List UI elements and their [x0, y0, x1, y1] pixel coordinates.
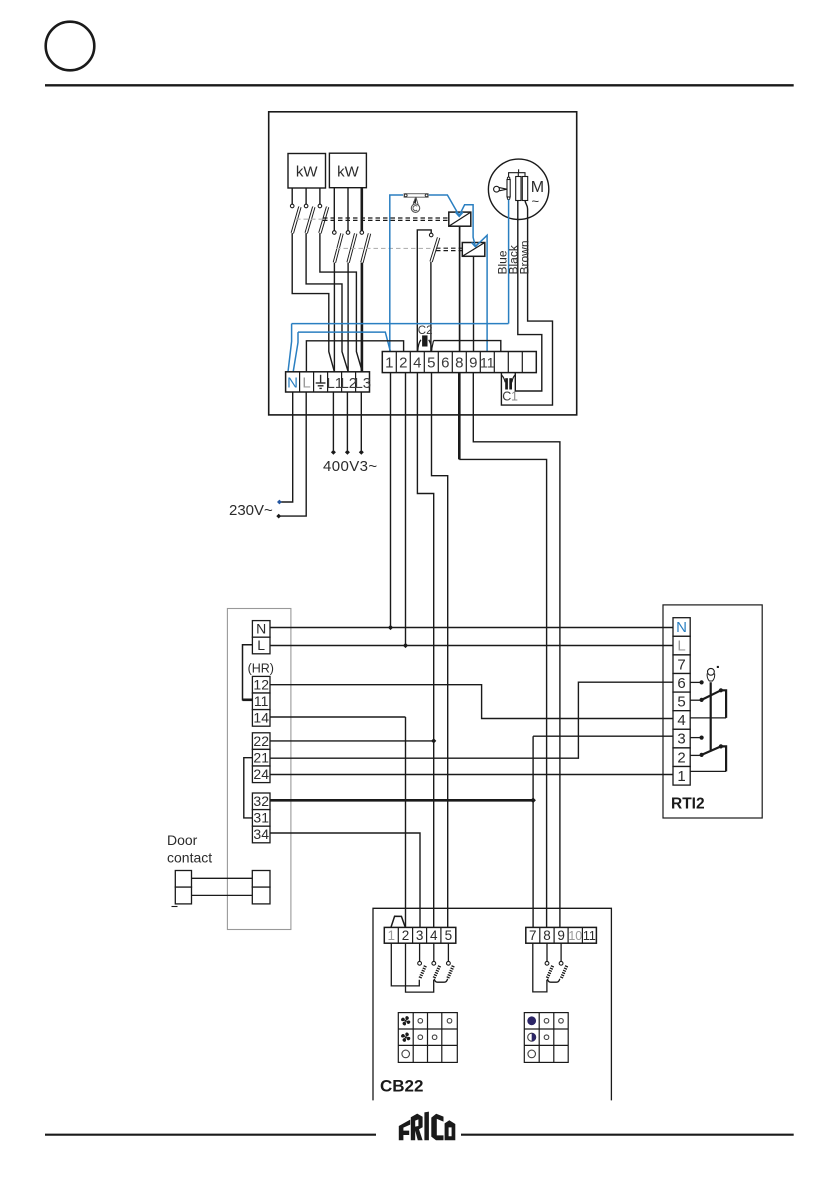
svg-text:2: 2: [402, 928, 410, 943]
svg-text:5: 5: [445, 928, 453, 943]
svg-text:C: C: [502, 390, 511, 404]
svg-text:22: 22: [253, 733, 269, 749]
svg-text:6: 6: [441, 355, 449, 372]
svg-text:4: 4: [677, 712, 685, 729]
svg-text:1: 1: [511, 390, 518, 404]
svg-text:5: 5: [427, 355, 435, 372]
svg-text:RTI2: RTI2: [671, 796, 705, 813]
svg-text:31: 31: [253, 810, 269, 826]
svg-text:21: 21: [253, 749, 269, 765]
svg-text:L: L: [257, 637, 265, 653]
svg-text:Brown: Brown: [518, 240, 532, 274]
svg-text:32: 32: [253, 793, 269, 809]
svg-text:5: 5: [677, 694, 685, 711]
svg-text:L3: L3: [354, 375, 371, 392]
svg-text:kW: kW: [337, 164, 360, 181]
svg-text:34: 34: [253, 826, 269, 842]
svg-text:7: 7: [529, 928, 537, 943]
svg-text:L: L: [302, 375, 310, 392]
svg-text:400V3~: 400V3~: [323, 458, 378, 475]
svg-text:contact: contact: [167, 850, 212, 866]
svg-text:230V~: 230V~: [229, 502, 273, 519]
svg-text:~: ~: [532, 194, 540, 209]
svg-text:L: L: [677, 638, 685, 655]
svg-text:CB22: CB22: [380, 1077, 423, 1096]
svg-text:kW: kW: [296, 164, 319, 181]
svg-text:14: 14: [253, 710, 269, 726]
svg-text:1: 1: [677, 768, 685, 785]
svg-text:C2: C2: [418, 325, 433, 337]
svg-text:8: 8: [455, 355, 463, 372]
svg-text:N: N: [256, 621, 266, 637]
svg-text:3: 3: [416, 928, 424, 943]
svg-text:(HR): (HR): [248, 661, 274, 675]
svg-text:Door: Door: [167, 832, 198, 848]
svg-text:8: 8: [543, 928, 551, 943]
svg-text:9: 9: [469, 355, 477, 372]
svg-text:3: 3: [677, 731, 685, 748]
svg-text:1: 1: [385, 355, 393, 372]
svg-text:11: 11: [480, 355, 495, 371]
svg-text:24: 24: [253, 766, 269, 782]
svg-text:11: 11: [583, 929, 596, 943]
svg-text:2: 2: [677, 749, 685, 766]
svg-text:12: 12: [253, 676, 269, 692]
svg-text:7: 7: [677, 656, 685, 673]
svg-text:11: 11: [254, 693, 269, 709]
svg-text:N: N: [287, 375, 298, 392]
svg-text:10: 10: [568, 929, 582, 943]
svg-text:9: 9: [557, 928, 565, 943]
svg-text:1: 1: [388, 928, 396, 943]
svg-text:2: 2: [399, 355, 407, 372]
svg-text:6: 6: [677, 675, 685, 692]
svg-text:4: 4: [413, 355, 421, 372]
svg-text:4: 4: [430, 928, 438, 943]
svg-text:N: N: [676, 619, 687, 636]
